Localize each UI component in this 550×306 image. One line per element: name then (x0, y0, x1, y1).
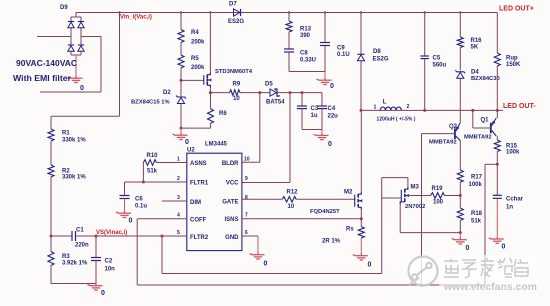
svg-text:Q1: Q1 (481, 118, 490, 124)
wire BLDR riser (258, 91, 261, 94)
capacitor C6 (124, 182, 126, 196)
diode D5 BAT54 (270, 89, 276, 96)
wire gate of M1 (181, 79, 204, 81)
resistor R2 (48, 165, 54, 177)
watermark CJK text dianzi fashaoyou (444, 258, 528, 278)
wire VCC riser (289, 91, 292, 94)
wire COFF drop (136, 219, 138, 285)
svg-text:3.92k 1%: 3.92k 1% (62, 261, 88, 267)
wire R2 down to C1 node (50, 177, 52, 236)
wire R10 drop to FLTR1 (142, 163, 144, 183)
svg-text:3: 3 (177, 195, 180, 201)
svg-text:0: 0 (101, 290, 105, 297)
wire M3 gate (382, 197, 402, 199)
svg-text:C4: C4 (328, 106, 336, 112)
svg-text:D7: D7 (229, 1, 237, 7)
node C1/R3 junction (50, 235, 53, 238)
svg-text:0: 0 (368, 262, 372, 269)
svg-text:330k 1%: 330k 1% (62, 137, 86, 143)
svg-text:2: 2 (407, 104, 410, 110)
wire D2 ground stub (180, 128, 182, 133)
ground under D2 (173, 133, 188, 140)
svg-text:1200uH ( +/-5% ): 1200uH ( +/-5% ) (377, 117, 416, 123)
wire C5 bottom (424, 59, 426, 111)
bridge D9 diode bottom-right (78, 44, 84, 46)
svg-text:C8: C8 (300, 51, 308, 57)
wire D2 bottom (180, 104, 182, 129)
wire R13 to C8 (288, 32, 290, 49)
svg-text:VCC: VCC (226, 181, 239, 187)
wire C6 ground stub (124, 199, 126, 212)
zener diode D4 (455, 70, 465, 73)
svg-text:ASNS: ASNS (190, 161, 207, 167)
svg-text:5K: 5K (471, 45, 479, 51)
svg-text:D8: D8 (373, 49, 381, 55)
svg-text:VS(Vinac,i): VS(Vinac,i) (96, 230, 127, 236)
wire Q1 base run (471, 109, 474, 112)
svg-text:MMBTA92: MMBTA92 (464, 134, 492, 140)
ground under C6 (116, 211, 131, 218)
svg-text:R6: R6 (219, 111, 227, 117)
ground under C2/R3 (88, 284, 103, 291)
svg-text:R15: R15 (506, 143, 518, 149)
diode D8 ES2G (357, 53, 364, 55)
svg-text:L: L (383, 100, 387, 106)
capacitor C5 (421, 55, 429, 57)
svg-text:M2: M2 (344, 189, 353, 195)
svg-text:Q2: Q2 (449, 124, 458, 130)
svg-text:GND: GND (225, 235, 239, 241)
svg-text:FLTR2: FLTR2 (190, 235, 209, 241)
svg-text:C5: C5 (433, 55, 441, 61)
svg-text:7: 7 (245, 213, 248, 219)
svg-text:C2: C2 (105, 259, 113, 265)
pin 2 FLTR1 wire (125, 181, 187, 183)
svg-text:R2: R2 (62, 168, 70, 174)
watermark white halo (439, 255, 538, 292)
transistor Q1 MMBTA92 (491, 118, 496, 136)
wire M2 drain (360, 110, 362, 192)
wire M3 drain loop (382, 177, 408, 179)
svg-text:R3: R3 (62, 254, 70, 260)
capacitor C8 (284, 48, 294, 50)
ground under R18 (452, 238, 467, 245)
svg-text:2R 1%: 2R 1% (322, 239, 341, 245)
svg-text:5: 5 (177, 230, 180, 236)
svg-text:0: 0 (129, 218, 133, 225)
node R6/D2 join (180, 127, 183, 130)
svg-text:100k: 100k (469, 182, 483, 188)
svg-text:R17: R17 (471, 175, 483, 181)
wire Q1 collector to R15 (496, 136, 498, 140)
wire rail to R16 (459, 11, 461, 13)
resistor R12 (282, 197, 296, 203)
svg-text:2N7002: 2N7002 (405, 204, 425, 210)
resistor R5 (178, 55, 184, 68)
svg-text:4: 4 (177, 213, 180, 219)
wire Q1 emitter stub (496, 110, 498, 118)
pin 1 ASNS wire (157, 162, 187, 164)
wire R6 bottom join (181, 127, 211, 129)
wire R9 to D5 (240, 92, 270, 94)
capacitor C9 (320, 42, 330, 44)
capacitor C1 (51, 235, 72, 237)
node gate junction (180, 79, 183, 82)
wire VS drop (161, 236, 163, 274)
wire rail to D8 (360, 11, 362, 13)
wire D4 to Q2 emitter (459, 79, 461, 123)
svg-text:0: 0 (80, 85, 84, 92)
svg-text:100: 100 (433, 200, 444, 206)
svg-text:100k: 100k (506, 150, 520, 156)
svg-text:150K: 150K (506, 62, 521, 68)
svg-text:ES2G: ES2G (373, 56, 389, 62)
bridge D9 left branch wires (71, 16, 81, 18)
svg-text:Rs: Rs (346, 227, 354, 233)
svg-text:GATE: GATE (222, 200, 238, 206)
svg-text:ISNS: ISNS (224, 217, 238, 223)
pin 4 COFF wire (137, 218, 187, 220)
wire M1 source node (209, 91, 212, 94)
wire R4 to R5 (180, 43, 182, 56)
wire M3 source down (399, 204, 401, 233)
svg-text:D5: D5 (265, 81, 273, 87)
resistor R4 (178, 30, 184, 43)
svg-text:200k: 200k (191, 39, 205, 45)
wire Q2 collector to R17 (459, 141, 461, 170)
wire source to R18 bottom run (400, 232, 460, 234)
svg-text:90VAC-140VAC: 90VAC-140VAC (16, 58, 77, 68)
svg-text:0: 0 (466, 245, 470, 252)
ground under C8/C9 (324, 72, 326, 79)
resistor R3 (50, 236, 52, 252)
wire Rs ground stub (360, 238, 362, 254)
svg-text:U2: U2 (187, 147, 195, 153)
MOSFET M2 FQD4N25T (355, 192, 363, 210)
svg-text:D2: D2 (163, 90, 171, 96)
resistor R15 (494, 140, 500, 152)
svg-text:9: 9 (245, 176, 248, 182)
wire riser to R15/Cchar node (484, 164, 486, 285)
wire D5 to VCC rail (277, 92, 322, 94)
pin 3 DIM wire (162, 200, 187, 202)
resistor R17 (457, 170, 463, 182)
wire R1 to R2 (50, 141, 52, 165)
svg-text:BZX84C15 1%: BZX84C15 1% (131, 100, 170, 106)
svg-text:C6: C6 (135, 196, 143, 202)
wire VS bottom run to M3 (162, 273, 382, 275)
wire Vin sense drop (119, 13, 121, 117)
svg-text:0: 0 (264, 261, 268, 268)
svg-text:www.elecfans.com: www.elecfans.com (443, 281, 537, 293)
wire C8 bottom (288, 52, 290, 72)
svg-text:R10: R10 (147, 153, 159, 159)
svg-text:STD3NM60T4: STD3NM60T4 (215, 69, 253, 75)
bridge D9 diode top-right (78, 21, 84, 23)
svg-text:10: 10 (244, 157, 250, 163)
svg-text:BAT54: BAT54 (266, 100, 285, 106)
inductor L (380, 107, 401, 110)
svg-text:220n: 220n (75, 243, 89, 249)
wire bridge bottom stub to ground (75, 55, 77, 76)
wire D8 to switch node (360, 61, 362, 110)
svg-text:D9: D9 (60, 5, 68, 11)
wire rail to R4 (180, 11, 182, 13)
diode D7 ES2G (234, 9, 240, 16)
svg-text:0.1U: 0.1U (337, 52, 350, 58)
svg-text:51k: 51k (471, 218, 482, 224)
resistor R10 (143, 160, 156, 166)
svg-text:10n: 10n (105, 266, 116, 272)
resistor R6 (210, 93, 212, 109)
svg-text:R5: R5 (191, 56, 199, 62)
wire Cchar bottom (496, 199, 498, 237)
resistor R9 (230, 90, 241, 96)
svg-text:R9: R9 (233, 82, 241, 88)
wire rail to R13 (288, 11, 290, 13)
wire M2 source to Rs (360, 210, 362, 227)
wire R19 to R17/R18 junction (445, 195, 461, 197)
svg-text:BZX84C30: BZX84C30 (471, 76, 500, 82)
svg-text:With EMI filter: With EMI filter (13, 73, 72, 83)
wire rail to M1 drain (209, 11, 211, 13)
resistor Rs (358, 227, 364, 239)
svg-text:10: 10 (288, 204, 295, 210)
MOSFET M3 2N7002 (400, 187, 409, 204)
wire C9 bottom (324, 46, 326, 72)
svg-text:8: 8 (245, 195, 248, 201)
wire AC input left stub (37, 36, 71, 38)
wire AC input right loop (81, 36, 101, 38)
bridge D9 diode top-left (68, 21, 74, 23)
wire C9 from rail (324, 11, 326, 13)
svg-text:LED OUT-: LED OUT- (503, 103, 536, 110)
svg-text:FQD4N25T: FQD4N25T (310, 209, 340, 215)
resistor R13 (286, 21, 292, 32)
capacitor C2 (95, 236, 97, 258)
MOSFET M1 STD3NM60T4 (204, 73, 212, 88)
resistor Rup (494, 53, 500, 66)
capacitor C3 (301, 91, 304, 94)
wire R15 to Cchar (496, 152, 498, 196)
IC U2 LM3445 box (187, 153, 242, 250)
svg-text:D4: D4 (471, 69, 479, 75)
svg-text:1: 1 (374, 104, 377, 110)
svg-text:R4: R4 (191, 30, 199, 36)
svg-text:BLDR: BLDR (222, 161, 239, 167)
svg-text:0.1u: 0.1u (135, 203, 147, 209)
wire Rup to LED- junction (496, 66, 498, 110)
svg-text:10: 10 (233, 96, 240, 102)
wire R6 bottom stub (210, 124, 212, 129)
svg-text:6: 6 (245, 230, 248, 236)
svg-text:330k 1%: 330k 1% (62, 175, 86, 181)
svg-text:MMBTA92: MMBTA92 (429, 139, 457, 145)
svg-text:Cchar: Cchar (506, 197, 524, 203)
ground under Rs (353, 254, 368, 261)
svg-text:M3: M3 (411, 185, 420, 191)
svg-text:R1: R1 (62, 131, 70, 137)
svg-text:390: 390 (300, 33, 311, 39)
svg-text:R13: R13 (300, 27, 312, 33)
svg-text:FLTR1: FLTR1 (190, 181, 209, 187)
bridge D9 right branch wires (80, 17, 82, 22)
svg-text:Rup: Rup (506, 56, 518, 62)
svg-text:200k: 200k (191, 65, 205, 71)
resistor R18 (457, 208, 463, 221)
svg-text:ES2G: ES2G (228, 19, 244, 25)
svg-text:COFF: COFF (190, 218, 207, 224)
svg-text:1: 1 (177, 157, 180, 163)
wire R18 ground stub (459, 233, 461, 238)
ground under bridge (68, 76, 83, 83)
ground under GND pin (250, 253, 265, 260)
wire bridge top stub to rail (75, 13, 77, 18)
pin 7 ISNS wire (242, 218, 361, 220)
svg-text:0: 0 (328, 141, 332, 148)
svg-text:R18: R18 (471, 211, 483, 217)
wire COFF bottom run (137, 284, 485, 286)
wire R12 to M2 gate (296, 198, 355, 200)
pin 8 GATE wire (242, 198, 282, 200)
svg-text:0.33U: 0.33U (300, 58, 316, 64)
watermark logo circle (409, 257, 438, 286)
svg-text:22u: 22u (328, 114, 339, 120)
wire LED minus line (361, 109, 503, 111)
bridge D9 diode bottom-left (68, 44, 74, 46)
node R19 junction (459, 194, 462, 197)
wire R16 to D4 (459, 48, 461, 71)
resistor R16 (457, 37, 463, 48)
svg-text:R12: R12 (287, 189, 299, 195)
wire R5 to D2 (180, 68, 182, 97)
pin 6 GND wire (242, 235, 258, 237)
capacitor Cchar (493, 194, 502, 196)
wire R18 bottom (459, 221, 461, 233)
capacitor C4 (321, 93, 323, 106)
svg-text:DIM: DIM (190, 200, 201, 206)
svg-text:560u: 560u (433, 63, 447, 69)
wire rail corner to Rup (496, 13, 498, 54)
svg-text:R16: R16 (471, 38, 483, 44)
wire C8/C9 join (289, 71, 325, 73)
node VS drop junction (161, 235, 164, 238)
wire C3/C4 bottom join (302, 129, 322, 131)
wire C2 bottom (95, 261, 97, 284)
resistor R19 (408, 195, 431, 197)
transistor Q2 MMBTA92 (455, 123, 460, 141)
wire R3 bottom to ground run (50, 266, 52, 284)
svg-text:R19: R19 (432, 186, 444, 192)
svg-text:2: 2 (177, 176, 180, 182)
wire rail to C5 (424, 11, 426, 13)
ground under C3/C4 (321, 130, 323, 134)
wire R17 to R18 (459, 182, 461, 208)
wire VS net to FLTR2 (96, 235, 187, 237)
svg-text:0: 0 (502, 244, 506, 251)
wire M3 vertical net (381, 178, 383, 274)
ground under Cchar (489, 237, 504, 244)
wire Q2 base run (422, 133, 455, 135)
svg-text:Vin_i(Vac,i): Vin_i(Vac,i) (120, 15, 152, 21)
svg-text:C1: C1 (76, 228, 84, 234)
svg-text:LM3445: LM3445 (205, 142, 228, 148)
svg-text:51k: 51k (147, 169, 158, 175)
svg-text:0: 0 (185, 139, 189, 146)
svg-text:1u: 1u (311, 113, 318, 119)
svg-text:1n: 1n (506, 205, 513, 211)
wire drop to R1 column (51, 115, 120, 117)
wire main rectified rail (76, 12, 497, 14)
resistor R1 (48, 129, 54, 141)
svg-text:C9: C9 (337, 46, 345, 52)
svg-text:0: 0 (330, 83, 334, 90)
zener diode D2 (176, 96, 186, 99)
svg-text:LED OUT+: LED OUT+ (499, 6, 534, 13)
